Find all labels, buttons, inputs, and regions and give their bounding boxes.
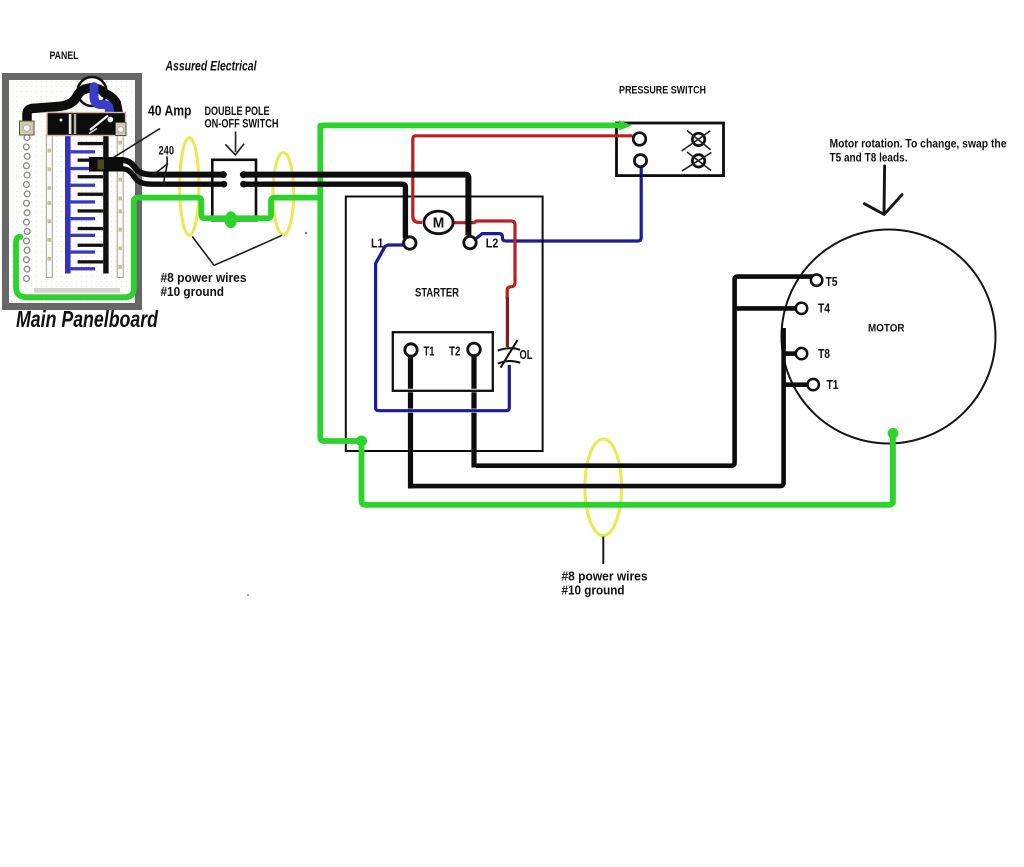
svg-text:L1: L1	[371, 237, 384, 251]
svg-text:Main Panelboard: Main Panelboard	[16, 306, 159, 332]
svg-text:L2: L2	[486, 236, 499, 250]
svg-text:#10 ground: #10 ground	[161, 284, 225, 299]
svg-text:T2: T2	[449, 345, 461, 359]
svg-text:PANEL: PANEL	[50, 50, 79, 62]
svg-text:T5 and T8 leads.: T5 and T8 leads.	[830, 153, 908, 165]
svg-text:T4: T4	[818, 301, 831, 316]
svg-text:Motor rotation. To change, swa: Motor rotation. To change, swap the	[830, 139, 1007, 151]
svg-text:#8 power wires: #8 power wires	[161, 270, 247, 285]
svg-text:T5: T5	[826, 274, 838, 289]
svg-text:ON-OFF SWITCH: ON-OFF SWITCH	[205, 117, 279, 131]
svg-text:Assured Electrical: Assured Electrical	[165, 59, 257, 74]
svg-text:#10 ground: #10 ground	[562, 583, 625, 598]
svg-text:T1: T1	[424, 345, 435, 359]
svg-text:40 Amp: 40 Amp	[148, 103, 192, 120]
svg-text:240: 240	[159, 144, 175, 158]
svg-text:T8: T8	[818, 346, 830, 361]
svg-text:#8 power wires: #8 power wires	[562, 569, 648, 584]
svg-text:MOTOR: MOTOR	[868, 323, 905, 335]
svg-text:T1: T1	[827, 377, 839, 392]
svg-text:PRESSURE SWITCH: PRESSURE SWITCH	[619, 85, 706, 97]
svg-text:M: M	[433, 215, 445, 232]
svg-text:OL: OL	[520, 348, 533, 362]
svg-text:STARTER: STARTER	[415, 288, 460, 300]
